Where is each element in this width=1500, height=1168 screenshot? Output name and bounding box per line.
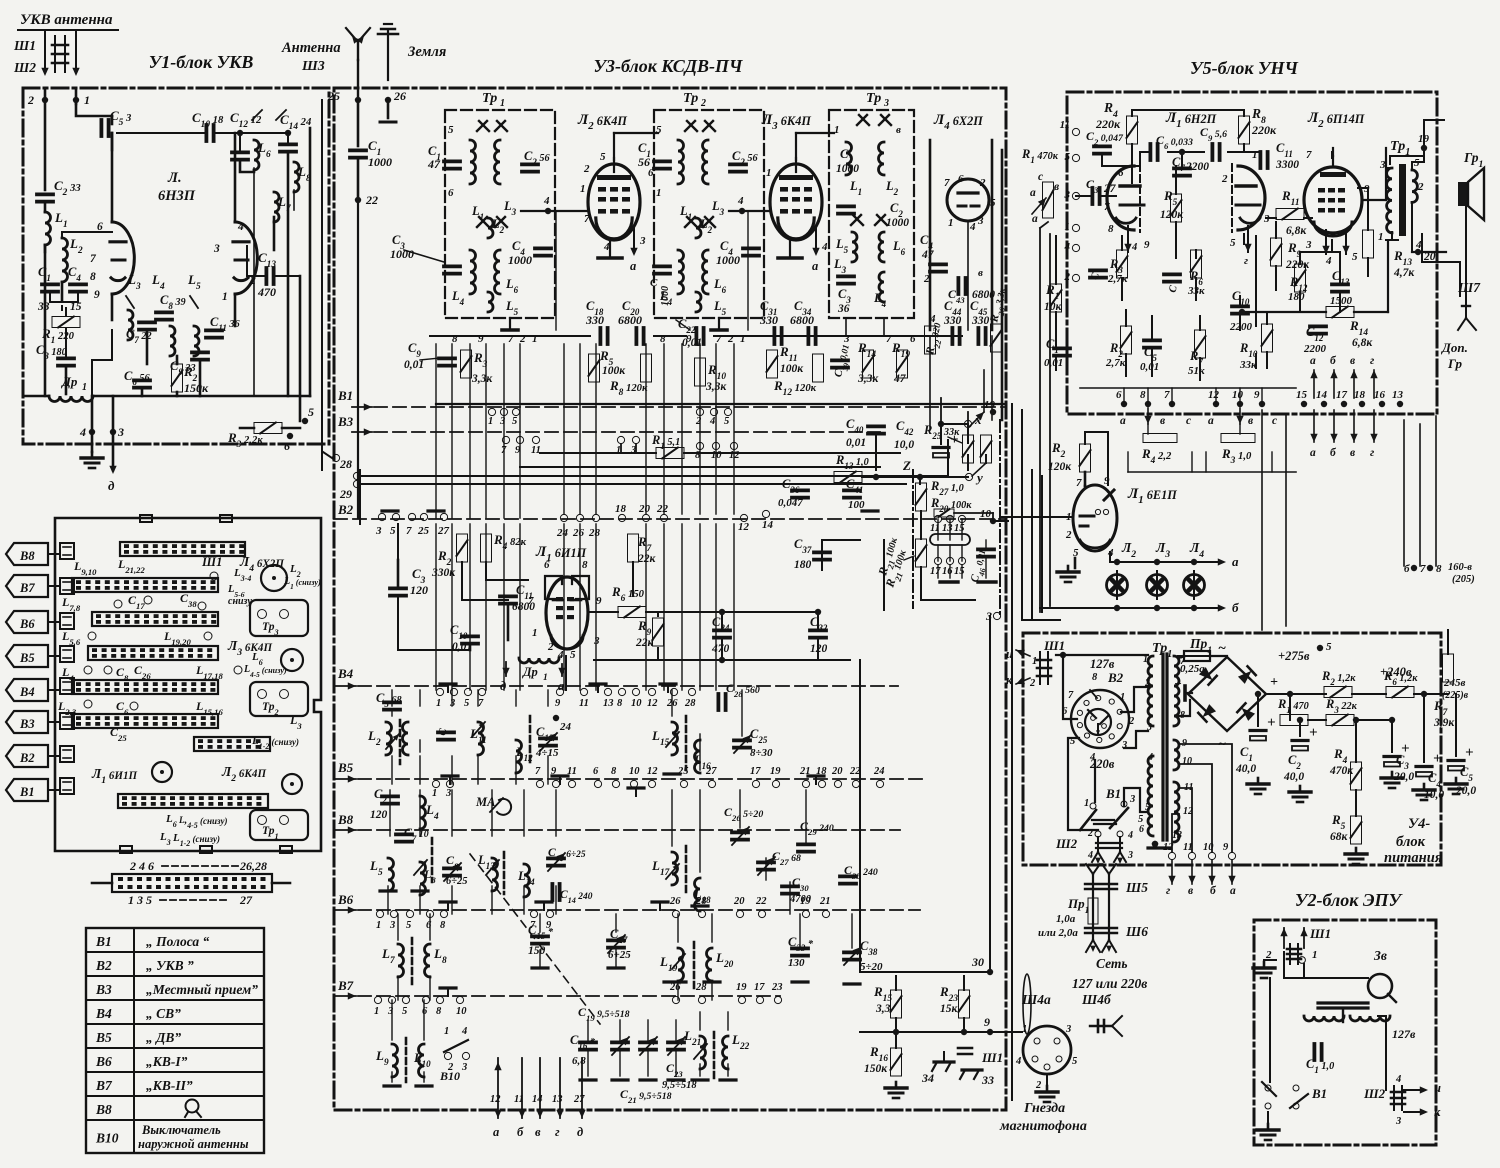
svg-text:12: 12 — [490, 1094, 501, 1105]
svg-text:R2: R2 — [1051, 440, 1066, 460]
svg-text:470: 470 — [711, 643, 730, 655]
wire anode feedback line — [1242, 311, 1326, 313]
coil L5 — [388, 858, 394, 891]
node 2 — [42, 97, 48, 103]
resistor R3 3,3к — [461, 350, 472, 378]
svg-text:4: 4 — [1395, 1074, 1401, 1085]
capacitor C37 180 — [814, 551, 830, 555]
svg-text:д: д — [577, 1125, 583, 1139]
svg-text:R19: R19 — [891, 340, 910, 360]
svg-text:В5: В5 — [95, 1030, 112, 1045]
svg-text:В3: В3 — [95, 982, 112, 997]
capacitor C1 1000 antenna — [357, 100, 360, 146]
ground bars under SV coils — [380, 889, 396, 892]
node 4 — [89, 429, 95, 435]
svg-text:1500: 1500 — [1330, 295, 1353, 307]
svg-text:0,01: 0,01 — [404, 359, 424, 371]
svg-text:Л2 6К4П: Л2 6К4П — [577, 112, 627, 132]
connector Ш6 ticks — [1085, 927, 1117, 929]
svg-text:23: 23 — [771, 982, 783, 993]
capacitor C27 68 — [758, 861, 774, 865]
svg-text:120: 120 — [410, 583, 428, 597]
svg-text:С38: С38 — [860, 939, 878, 957]
capacitor C1 47 — [444, 159, 460, 163]
svg-text:18: 18 — [1354, 389, 1366, 401]
svg-text:L19: L19 — [659, 954, 678, 974]
contacts 11 13 15 — [934, 515, 941, 522]
svg-text:в: в — [1350, 447, 1355, 459]
node 5 — [302, 418, 308, 424]
electrolytic C5 20,0 — [1448, 759, 1464, 762]
svg-text:Л2 6П14П: Л2 6П14П — [1307, 110, 1365, 130]
capacitor C14 24 — [280, 142, 296, 146]
svg-text:15к: 15к — [940, 1003, 959, 1015]
transformer Тр1 windings upper — [470, 140, 476, 184]
node 4 — [1072, 244, 1079, 251]
long verticals inside У3 from Тр1 to switch rows — [435, 344, 437, 518]
resistor R6 1,2к — [1386, 687, 1414, 698]
contact row B5 — [432, 780, 439, 787]
svg-text:7: 7 — [501, 445, 507, 456]
svg-text:0,01: 0,01 — [1140, 361, 1159, 373]
tube Л4 6Х2П diode — [947, 179, 989, 221]
svg-text:8: 8 — [582, 559, 588, 571]
svg-text:3: 3 — [499, 416, 505, 427]
node Y — [965, 473, 972, 480]
capacitor C12 12 — [232, 150, 248, 154]
coil L13 — [492, 858, 498, 891]
svg-text:С19 9,5÷518: С19 9,5÷518 — [578, 1005, 630, 1023]
wire from R20 to node10 — [954, 512, 993, 514]
svg-text:14: 14 — [762, 519, 774, 531]
feeder wire y484 — [361, 483, 906, 485]
resistor R5 100к — [589, 354, 600, 382]
svg-text:10: 10 — [980, 508, 992, 520]
svg-text:б: б — [1404, 563, 1410, 575]
svg-text:7: 7 — [1076, 477, 1082, 489]
svg-text:L4: L4 — [61, 665, 74, 683]
svg-text:L17,18: L17,18 — [195, 663, 223, 681]
svg-text:6: 6 — [422, 1006, 428, 1017]
capacitor C32 120 — [810, 629, 826, 633]
long verticals under Тр2 — [645, 344, 647, 514]
wire grid1 left — [1076, 195, 1090, 197]
svg-text:С9: С9 — [408, 341, 421, 359]
svg-text:В4: В4 — [95, 1006, 112, 1021]
svg-text:3: 3 — [1305, 239, 1312, 251]
wire a rail — [1110, 561, 1222, 563]
ground — [91, 396, 94, 452]
capacitor C28 560 — [717, 694, 721, 710]
svg-text:19: 19 — [770, 766, 781, 777]
node 3 — [110, 429, 116, 435]
electrolytic C4 10,0 — [1416, 765, 1432, 768]
node 10 wire — [1039, 562, 1041, 608]
svg-text:8: 8 — [90, 271, 96, 283]
svg-text:и: и — [1006, 647, 1013, 661]
svg-text:17: 17 — [754, 982, 765, 993]
capacitor C17 6+25 — [608, 939, 624, 943]
capacitor C30 4700 — [782, 885, 798, 889]
capacitor C5 3 — [100, 120, 104, 136]
tube Л1 6И1П triode-heptode — [546, 577, 588, 649]
ground C3 C4 C5 — [1391, 772, 1394, 778]
wire b rail — [1040, 607, 1222, 609]
grid wire Л3 — [729, 210, 770, 212]
svg-text:Тр3: Тр3 — [262, 621, 279, 637]
capacitor C36 0,047 — [792, 488, 808, 492]
svg-text:1: 1 — [543, 673, 548, 683]
svg-text:10,0: 10,0 — [894, 439, 914, 451]
svg-text:3: 3 — [639, 235, 646, 247]
svg-text:25: 25 — [417, 525, 430, 537]
plug В4 — [6, 679, 48, 701]
ground У2 left — [1264, 959, 1276, 961]
svg-text:2 4 6: 2 4 6 — [129, 859, 154, 873]
svg-text:L9,10: L9,10 — [73, 559, 97, 577]
svg-text:С17: С17 — [128, 593, 145, 611]
svg-text:13: 13 — [603, 698, 614, 709]
capacitor C33* 130 — [792, 947, 808, 951]
contacts 24 26 28 — [560, 514, 567, 521]
svg-text:1: 1 — [948, 217, 954, 229]
svg-text:L4: L4 — [425, 802, 439, 822]
svg-text:20: 20 — [638, 503, 651, 515]
coil L9 — [392, 1044, 398, 1077]
svg-text:3: 3 — [985, 609, 992, 623]
coil L5 — [488, 292, 493, 312]
svg-text:2: 2 — [1417, 181, 1424, 193]
wire output stage — [1331, 240, 1333, 252]
svg-text:С9 5,6: С9 5,6 — [1200, 125, 1227, 143]
svg-text:26: 26 — [669, 896, 681, 907]
tube Л1 6Н2П second triode half — [1238, 166, 1265, 230]
svg-text:2,7к: 2,7к — [1107, 273, 1128, 285]
svg-text:Гнезда: Гнезда — [1023, 1101, 1065, 1116]
svg-text:х: х — [974, 412, 982, 427]
horizontal connect eye to borders — [1022, 619, 1060, 621]
svg-text:7: 7 — [944, 177, 950, 189]
svg-text:9: 9 — [596, 595, 602, 607]
wire heater winding out — [1179, 744, 1232, 852]
wires У5 internals — [1131, 144, 1133, 166]
svg-text:3: 3 — [375, 525, 382, 537]
resistor R11 100к — [767, 350, 778, 378]
coil L10 — [419, 1044, 425, 1077]
svg-text:100к: 100к — [602, 365, 626, 377]
svg-text:Доп.: Доп. — [1441, 340, 1468, 355]
dashed subbox detector — [912, 470, 914, 608]
capacitor C8 6÷25 — [444, 867, 460, 871]
capacitor C3 1000 — [444, 264, 460, 268]
svg-text:6,8к: 6,8к — [1286, 225, 1307, 237]
resistor R4 220к — [1127, 116, 1138, 144]
coil L19 — [678, 948, 684, 981]
svg-text:Тр: Тр — [866, 91, 881, 106]
svg-text:С11: С11 — [1276, 141, 1293, 159]
svg-text:3,3: 3,3 — [875, 1003, 891, 1015]
svg-text:1,0а: 1,0а — [1056, 913, 1076, 925]
svg-text:Гр1: Гр1 — [1463, 150, 1483, 170]
svg-text:2: 2 — [1128, 716, 1135, 727]
grid wire Л2 — [521, 210, 588, 212]
ground bar under Тр2 pins — [718, 318, 720, 328]
ground under Л2 — [609, 240, 611, 256]
svg-text:L4: L4 — [151, 272, 165, 292]
svg-text:L4: L4 — [451, 289, 465, 307]
svg-text:С13: С13 — [258, 250, 276, 270]
svg-text:40,0: 40,0 — [1235, 763, 1256, 775]
svg-text:3: 3 — [977, 215, 984, 227]
capacitor C3 1000 Тр2 — [654, 264, 670, 268]
capacitor C4 1000 — [535, 246, 551, 250]
svg-text:4: 4 — [543, 195, 550, 207]
svg-text:L5: L5 — [187, 272, 201, 292]
capacitor C46 0,01 rotated — [978, 548, 994, 552]
svg-text:47: 47 — [427, 157, 441, 171]
svg-text:51к: 51к — [1188, 365, 1205, 377]
svg-text:L6 L,4-5 (снизу): L6 L,4-5 (снизу) — [165, 813, 228, 830]
variable cap bank leads — [587, 1020, 589, 1040]
svg-text:7: 7 — [1068, 690, 1074, 701]
svg-text:40,0: 40,0 — [1283, 771, 1304, 783]
coil winding L5 tank — [194, 326, 199, 356]
svg-text:6: 6 — [448, 187, 454, 199]
svg-text:5: 5 — [1230, 237, 1236, 249]
svg-text:4: 4 — [1015, 1056, 1021, 1067]
svg-text:R1 470: R1 470 — [1277, 697, 1309, 715]
svg-text:7: 7 — [528, 595, 534, 607]
right coils leads — [671, 690, 673, 716]
svg-text:Л1 6Н2П: Л1 6Н2П — [1165, 110, 1217, 130]
svg-text:6÷25: 6÷25 — [446, 876, 468, 887]
svg-text:10: 10 — [711, 450, 722, 461]
trimmer arrows L3 L5 — [126, 296, 134, 308]
svg-text:L1-2 (снизу): L1-2 (снизу) — [251, 735, 299, 751]
svg-text:1: 1 — [1378, 231, 1384, 243]
svg-text:+275в: +275в — [1278, 649, 1310, 663]
svg-text:9: 9 — [515, 445, 521, 456]
svg-text:127в: 127в — [1090, 657, 1115, 671]
svg-text:21: 21 — [819, 896, 831, 907]
svg-text:L22: L22 — [731, 1032, 750, 1052]
svg-text:245в: 245в — [1443, 677, 1466, 689]
electrolytic C42 10,0 — [933, 446, 949, 449]
svg-text:R14: R14 — [857, 340, 876, 360]
svg-text:С: С — [650, 277, 658, 289]
bridge diode 3 — [1198, 703, 1216, 721]
svg-text:4700: 4700 — [789, 894, 812, 905]
svg-text:36: 36 — [837, 303, 850, 315]
svg-text:5: 5 — [512, 416, 517, 427]
wire Л4 to detector — [967, 221, 969, 330]
svg-text:0,01: 0,01 — [846, 437, 866, 449]
svg-text:R9: R9 — [637, 618, 652, 638]
selector hub contacts — [1091, 716, 1096, 721]
capacitor C7 2200 — [1174, 166, 1190, 170]
svg-text:С13 6÷25: С13 6÷25 — [548, 847, 586, 863]
trimmer X marks Тр1 mid — [477, 217, 487, 227]
svg-text:1000: 1000 — [716, 253, 740, 267]
svg-text:7: 7 — [1104, 201, 1110, 213]
svg-text:1: 1 — [532, 333, 538, 345]
svg-text:L5: L5 — [369, 858, 383, 878]
ground C2 — [1299, 786, 1302, 792]
svg-text:в: в — [1350, 355, 1355, 367]
svg-text:12: 12 — [647, 698, 658, 709]
svg-text:Л1 6Е1П: Л1 6Е1П — [1127, 486, 1177, 506]
node 9 — [987, 1029, 993, 1035]
feeder wire y476 — [361, 475, 948, 477]
dial lamp Л4 — [1184, 575, 1205, 596]
left coils leads B6 section — [397, 914, 399, 940]
svg-text:3: 3 — [1127, 850, 1133, 861]
svg-text:В10: В10 — [95, 1131, 119, 1146]
resistor R12 180 — [1295, 264, 1306, 292]
svg-text:9: 9 — [1254, 389, 1260, 401]
svg-text:С26 5÷20: С26 5÷20 — [724, 805, 763, 823]
svg-text:в: в — [1160, 415, 1165, 427]
svg-text:28: 28 — [684, 698, 696, 709]
svg-text:5: 5 — [1326, 641, 1332, 653]
svg-text:1: 1 — [82, 382, 87, 393]
switch block outline — [55, 518, 321, 851]
svg-text:330: 330 — [943, 315, 962, 327]
trimmer arrows on coils — [386, 734, 399, 749]
svg-text:L5,6: L5,6 — [61, 629, 81, 647]
capacitor C10 18 — [204, 125, 208, 141]
svg-text:В5: В5 — [19, 651, 35, 665]
core lines of band coils — [399, 720, 402, 764]
svg-text:Л2 6К4П: Л2 6К4П — [221, 764, 266, 784]
bridge diode 2 — [1237, 666, 1255, 684]
svg-text:6Н3П: 6Н3П — [158, 188, 196, 204]
svg-text:6800: 6800 — [618, 313, 642, 327]
svg-text:11: 11 — [1060, 119, 1070, 131]
svg-text:С12 12: С12 12 — [230, 110, 262, 130]
svg-text:330: 330 — [759, 313, 778, 327]
svg-text:9: 9 — [478, 333, 484, 345]
tube Л3 6К4П — [770, 164, 822, 240]
svg-text:L3: L3 — [503, 199, 517, 217]
svg-text:R23: R23 — [939, 984, 958, 1004]
svg-text:в: в — [896, 124, 901, 136]
svg-text:R11: R11 — [1281, 188, 1300, 208]
box Тр1 — [250, 810, 308, 840]
svg-text:28: 28 — [339, 457, 352, 471]
wire twin feeder from antenna — [54, 36, 56, 72]
mains pair wires — [1092, 874, 1094, 940]
svg-text:L20: L20 — [715, 950, 734, 970]
wires mixer area — [398, 598, 470, 650]
contact row under Л2: 7 9 11 — [502, 436, 509, 443]
node 19 right — [990, 409, 996, 415]
switch contact — [332, 454, 339, 461]
svg-text:L4-5 (снизу): L4-5 (снизу) — [243, 664, 287, 679]
svg-text:В8: В8 — [337, 812, 354, 827]
hum pot R3 1,0 — [1221, 434, 1255, 443]
svg-text:3,3к: 3,3к — [471, 373, 493, 385]
svg-text:0,01: 0,01 — [1044, 357, 1063, 369]
coil L16 — [695, 740, 701, 773]
feeder wire y453 — [540, 452, 656, 454]
capacitor C6 0,033 — [1149, 144, 1153, 160]
svg-text:Выключатель: Выключатель — [141, 1123, 221, 1137]
svg-text:17: 17 — [750, 766, 761, 777]
contact row under Л3: 8 10 12 — [696, 442, 703, 449]
svg-text:120: 120 — [370, 809, 388, 821]
resistor R14 3,3к — [863, 350, 874, 378]
svg-text:В3: В3 — [337, 414, 354, 429]
resistor R1 5,1 — [656, 448, 684, 459]
svg-text:Ш1: Ш1 — [981, 1050, 1003, 1065]
svg-text:а: а — [1120, 415, 1126, 427]
svg-text:L5: L5 — [835, 237, 849, 255]
svg-text:б: б — [1232, 600, 1239, 615]
svg-text:2: 2 — [547, 641, 554, 653]
svg-text:Л4 6Х2П: Л4 6Х2П — [239, 554, 284, 574]
svg-text:3,3к: 3,3к — [705, 381, 727, 393]
svg-text:+: + — [1309, 725, 1318, 741]
capacitor C8 39 — [156, 310, 172, 314]
svg-text:1: 1 — [834, 124, 840, 136]
node 10 — [990, 518, 996, 524]
verticals under Тр3 to detector row — [845, 318, 847, 336]
grid frame 6 — [545, 576, 562, 599]
svg-text:L3: L3 — [711, 199, 725, 217]
grid bus contacts У5 bottom — [1121, 401, 1127, 407]
svg-text:к: к — [1434, 1105, 1441, 1119]
svg-text:3300: 3300 — [1275, 159, 1299, 171]
svg-text:−: − — [1174, 676, 1182, 691]
svg-text:С: С — [1090, 271, 1102, 281]
wire output arrow д — [112, 396, 115, 470]
contacts 3 5 7 25 27 — [378, 513, 385, 520]
capacitor C3 120 — [390, 587, 406, 591]
speaker Гр1 — [1458, 182, 1468, 206]
chassis 33 — [962, 1068, 982, 1071]
coil L2 Тр2 — [696, 218, 701, 238]
svg-text:L9: L9 — [375, 1048, 389, 1068]
svg-text:13: 13 — [1172, 830, 1182, 841]
contact row under Л3: 2 4 6 — [696, 408, 703, 415]
wire right edge У1 down — [321, 100, 323, 470]
tube Л2 6П14П output pentode — [1304, 167, 1362, 233]
svg-text:150к: 150к — [184, 381, 209, 395]
tube circle Л2 switch — [282, 774, 302, 794]
svg-text:220к: 220к — [1285, 259, 1310, 271]
svg-text:L1: L1 — [54, 210, 68, 230]
coil ground bars row B4 section — [391, 690, 393, 706]
svg-text:2: 2 — [700, 98, 706, 109]
ground R5 — [1355, 848, 1358, 854]
svg-text:3: 3 — [1129, 794, 1135, 805]
transformer Тр3 windings — [846, 142, 852, 175]
svg-text:Др: Др — [522, 665, 538, 679]
svg-text:Ш1: Ш1 — [1043, 638, 1065, 653]
svg-text:R4: R4 — [1333, 746, 1348, 766]
svg-text:24: 24 — [556, 527, 569, 539]
svg-text:R14: R14 — [1349, 318, 1368, 338]
node 1 — [1072, 224, 1079, 231]
svg-text:6,8к: 6,8к — [1352, 337, 1373, 349]
svg-text:160-в: 160-в — [1448, 562, 1472, 573]
tube circle Л4 switch — [261, 565, 287, 591]
svg-text:R13 1,0: R13 1,0 — [835, 453, 869, 471]
svg-text:R4 2,2: R4 2,2 — [1141, 446, 1172, 466]
svg-text:4: 4 — [821, 241, 828, 253]
wires detector — [875, 436, 877, 470]
